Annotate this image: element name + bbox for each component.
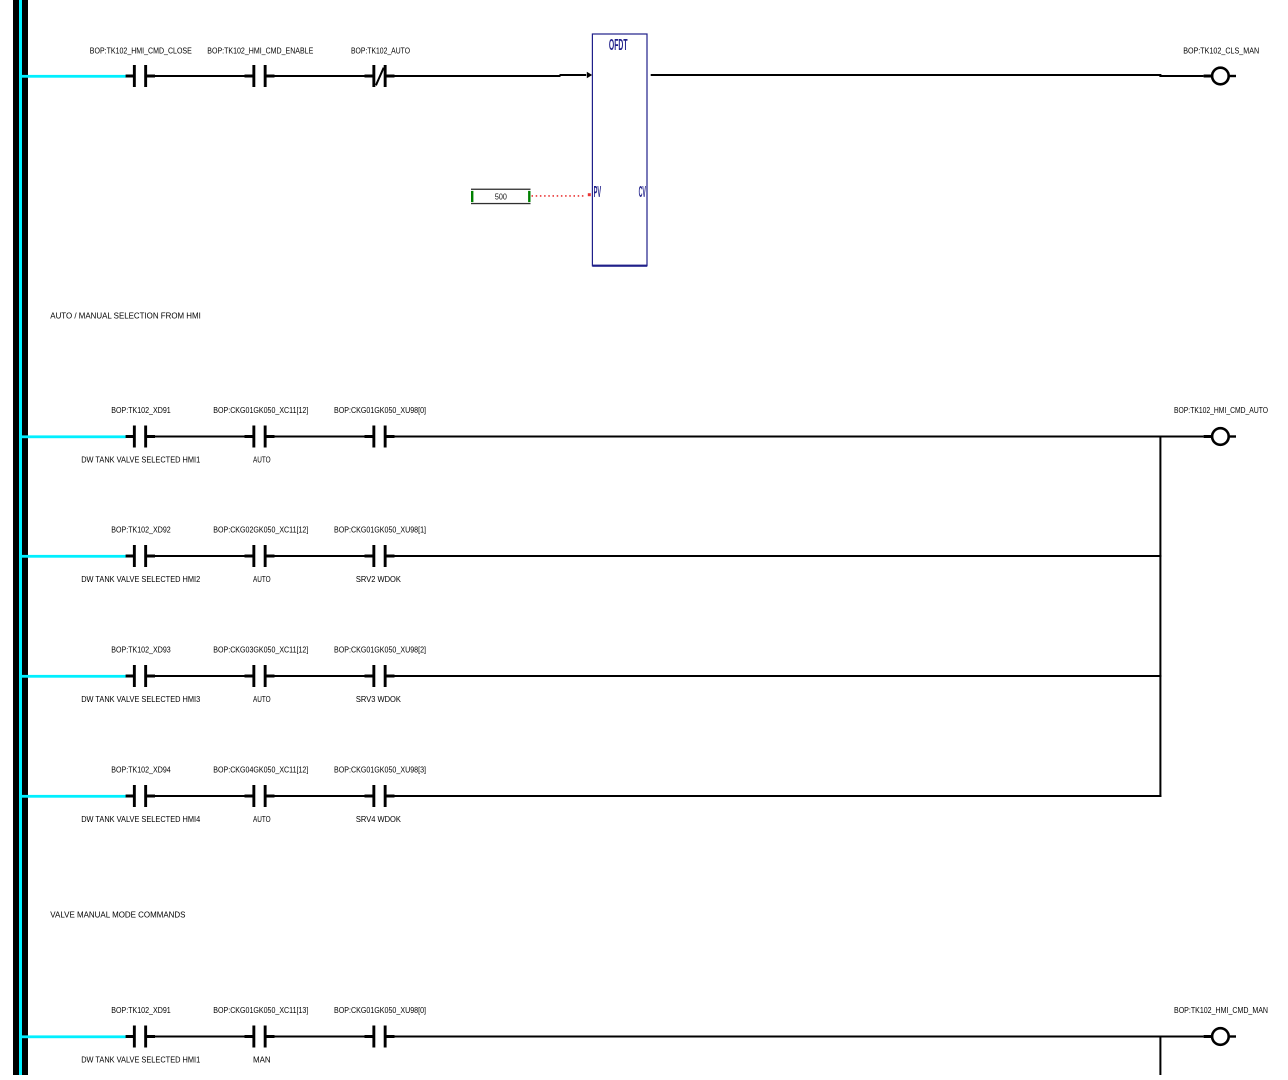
contact BOP:CKG01GK050_XU98[0] (NO) bbox=[334, 1006, 426, 1048]
svg-text:AUTO / MANUAL SELECTION FROM H: AUTO / MANUAL SELECTION FROM HMI bbox=[50, 311, 201, 320]
timer function block OFDT bbox=[592, 34, 647, 267]
contact BOP:CKG01GK050_XU98[2] (NO) bbox=[334, 645, 426, 703]
svg-text:BOP:TK102_XD94: BOP:TK102_XD94 bbox=[111, 765, 171, 774]
contact BOP:TK102_XD91 (NO) bbox=[81, 1006, 200, 1064]
contact BOP:TK102_XD92 (NO) bbox=[81, 525, 200, 583]
svg-text:OFDT: OFDT bbox=[609, 37, 628, 54]
constant value 500 bbox=[471, 189, 531, 205]
svg-text:BOP:CKG01GK050_XU98[0]: BOP:CKG01GK050_XU98[0] bbox=[334, 406, 426, 415]
coil BOP:TK102_HMI_CMD_AUTO bbox=[1159, 406, 1268, 445]
svg-text:BOP:CKG01GK050_XC11[13]: BOP:CKG01GK050_XC11[13] bbox=[213, 1006, 308, 1015]
rung 3 wire from left rail bbox=[19, 555, 395, 558]
svg-text:DW TANK VALVE SELECTED HMI1: DW TANK VALVE SELECTED HMI1 bbox=[81, 455, 200, 464]
rung 2 wire from left rail bbox=[19, 435, 395, 438]
contact BOP:CKG01GK050_XC11[12] (NO) bbox=[213, 406, 308, 464]
left power rail bbox=[13, 0, 28, 1075]
rung 4 wire to OR-join bbox=[395, 675, 1162, 677]
svg-text:BOP:TK102_HMI_CMD_MAN: BOP:TK102_HMI_CMD_MAN bbox=[1174, 1006, 1268, 1015]
contact BOP:TK102_HMI_CMD_CLOSE (NO) bbox=[90, 46, 192, 87]
svg-text:BOP:CKG01GK050_XU98[3]: BOP:CKG01GK050_XU98[3] bbox=[334, 765, 426, 774]
svg-text:BOP:CKG01GK050_XU98[2]: BOP:CKG01GK050_XU98[2] bbox=[334, 645, 426, 654]
svg-text:CV: CV bbox=[639, 184, 647, 201]
svg-text:AUTO: AUTO bbox=[253, 695, 271, 704]
svg-text:BOP:CKG01GK050_XU98[1]: BOP:CKG01GK050_XU98[1] bbox=[334, 525, 426, 534]
rung 6 wire from left rail bbox=[19, 1035, 395, 1038]
rung 4 wire from left rail bbox=[19, 675, 395, 678]
svg-text:BOP:TK102_XD93: BOP:TK102_XD93 bbox=[111, 645, 171, 654]
svg-text:VALVE MANUAL MODE COMMANDS: VALVE MANUAL MODE COMMANDS bbox=[50, 911, 185, 920]
svg-text:PV: PV bbox=[594, 184, 602, 201]
contact BOP:TK102_XD94 (NO) bbox=[81, 765, 200, 823]
svg-text:DW TANK VALVE SELECTED HMI4: DW TANK VALVE SELECTED HMI4 bbox=[81, 815, 200, 824]
svg-text:AUTO: AUTO bbox=[253, 455, 271, 464]
svg-text:DW TANK VALVE SELECTED HMI1: DW TANK VALVE SELECTED HMI1 bbox=[81, 1055, 200, 1064]
svg-text:BOP:TK102_HMI_CMD_CLOSE: BOP:TK102_HMI_CMD_CLOSE bbox=[90, 46, 192, 55]
PV parameter wire (red dotted) bbox=[532, 193, 591, 196]
OR-branch join wire below rung 6 bbox=[1159, 1036, 1161, 1076]
svg-text:BOP:TK102_HMI_CMD_AUTO: BOP:TK102_HMI_CMD_AUTO bbox=[1174, 406, 1268, 415]
svg-text:BOP:TK102_XD91: BOP:TK102_XD91 bbox=[111, 406, 171, 415]
svg-text:BOP:TK102_XD92: BOP:TK102_XD92 bbox=[111, 525, 171, 534]
rung 5 wire to OR-join bbox=[395, 795, 1162, 797]
svg-text:BOP:TK102_CLS_MAN: BOP:TK102_CLS_MAN bbox=[1183, 46, 1259, 55]
contact BOP:CKG01GK050_XC11[13] (NO) bbox=[213, 1006, 308, 1064]
svg-text:BOP:CKG01GK050_XC11[12]: BOP:CKG01GK050_XC11[12] bbox=[213, 406, 308, 415]
contact BOP:CKG01GK050_XU98[1] (NO) bbox=[334, 525, 426, 583]
svg-text:BOP:TK102_AUTO: BOP:TK102_AUTO bbox=[351, 46, 410, 55]
svg-text:SRV4 WDOK: SRV4 WDOK bbox=[356, 815, 402, 824]
svg-text:MAN: MAN bbox=[253, 1055, 271, 1064]
svg-text:BOP:CKG01GK050_XU98[0]: BOP:CKG01GK050_XU98[0] bbox=[334, 1006, 426, 1015]
wire from OFDT CV output to output coil bbox=[651, 74, 1162, 77]
svg-text:BOP:CKG04GK050_XC11[12]: BOP:CKG04GK050_XC11[12] bbox=[213, 765, 308, 774]
coil BOP:TK102_HMI_CMD_MAN bbox=[1159, 1006, 1268, 1045]
wire from NC contact to OFDT block input with arrowhead bbox=[395, 72, 593, 78]
svg-text:BOP:TK102_XD91: BOP:TK102_XD91 bbox=[111, 1006, 171, 1015]
svg-text:500: 500 bbox=[495, 193, 507, 202]
contact BOP:CKG03GK050_XC11[12] (NO) bbox=[213, 645, 308, 703]
svg-text:BOP:CKG02GK050_XC11[12]: BOP:CKG02GK050_XC11[12] bbox=[213, 525, 308, 534]
contact BOP:CKG04GK050_XC11[12] (NO) bbox=[213, 765, 308, 823]
coil BOP:TK102_CLS_MAN bbox=[1159, 46, 1259, 84]
svg-text:AUTO: AUTO bbox=[253, 575, 271, 584]
svg-text:SRV2 WDOK: SRV2 WDOK bbox=[356, 575, 402, 584]
rung 2 wire to OR-join bbox=[395, 436, 1161, 438]
OR-branch join wire (rungs 2-5) bbox=[1159, 436, 1161, 798]
rung 5 wire from left rail bbox=[19, 795, 395, 798]
contact BOP:TK102_HMI_CMD_ENABLE (NO) bbox=[207, 46, 313, 87]
svg-text:BOP:CKG03GK050_XC11[12]: BOP:CKG03GK050_XC11[12] bbox=[213, 645, 308, 654]
contact BOP:TK102_AUTO (NC) bbox=[351, 46, 410, 87]
contact BOP:TK102_XD91 (NO) bbox=[81, 406, 200, 464]
svg-text:SRV3 WDOK: SRV3 WDOK bbox=[356, 695, 402, 704]
rung 1 wire from left rail bbox=[19, 75, 395, 78]
svg-text:DW TANK VALVE SELECTED HMI3: DW TANK VALVE SELECTED HMI3 bbox=[81, 695, 200, 704]
svg-text:AUTO: AUTO bbox=[253, 815, 271, 824]
contact BOP:CKG02GK050_XC11[12] (NO) bbox=[213, 525, 308, 583]
contact BOP:CKG01GK050_XU98[0] (NO) bbox=[334, 406, 426, 448]
svg-text:DW TANK VALVE SELECTED HMI2: DW TANK VALVE SELECTED HMI2 bbox=[81, 575, 200, 584]
rung 6 wire to coil bbox=[395, 1036, 1161, 1038]
svg-text:BOP:TK102_HMI_CMD_ENABLE: BOP:TK102_HMI_CMD_ENABLE bbox=[207, 46, 313, 55]
contact BOP:TK102_XD93 (NO) bbox=[81, 645, 200, 703]
contact BOP:CKG01GK050_XU98[3] (NO) bbox=[334, 765, 426, 823]
rung 3 wire to OR-join bbox=[395, 555, 1162, 557]
